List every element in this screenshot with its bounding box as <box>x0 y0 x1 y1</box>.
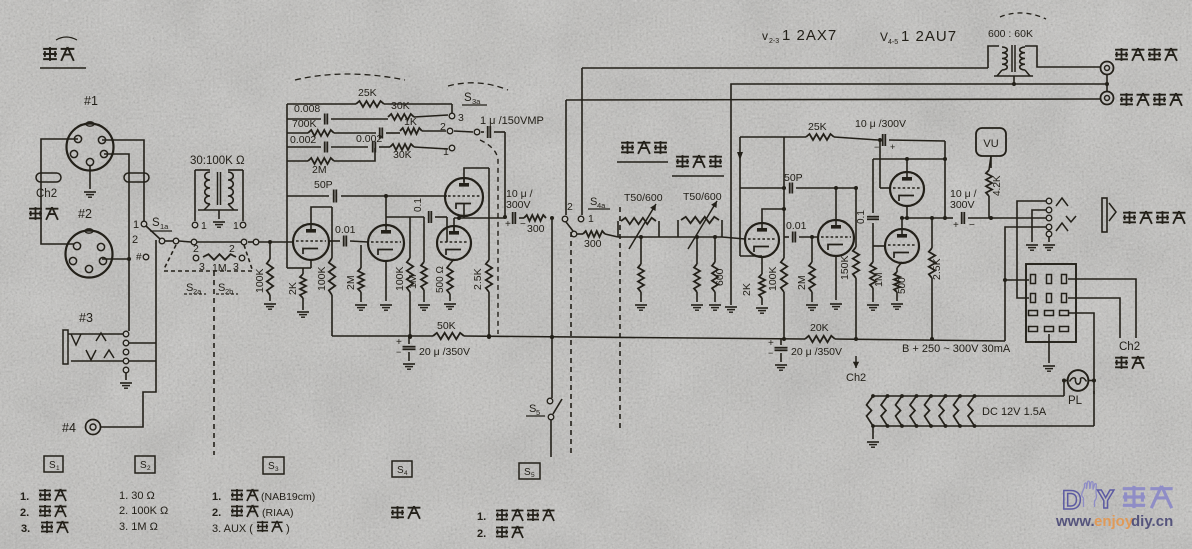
legend S4 从略 <box>391 506 420 519</box>
junction to S5 <box>550 216 554 220</box>
wire fb rail left <box>737 137 762 256</box>
triode V5 <box>885 229 919 263</box>
svg-text:20 μ /350V: 20 μ /350V <box>419 346 470 358</box>
svg-text:10 μ /300V: 10 μ /300V <box>855 118 906 130</box>
svg-text:#1: #1 <box>84 94 98 108</box>
wire vertical bus to #4 <box>101 240 156 427</box>
wire socket pin ground <box>1043 334 1055 371</box>
label 0.01 <box>335 224 356 236</box>
capacitor 20μ/350V (2) <box>768 338 788 370</box>
svg-text:+: + <box>953 220 959 231</box>
svg-text:1.: 1. <box>20 491 29 503</box>
triode V4 <box>890 172 924 206</box>
wire recording output line <box>566 99 1100 100</box>
resistor 100K (V2 load) <box>781 237 787 341</box>
label 4.2K <box>992 175 1003 196</box>
label 50P (fb) <box>784 172 803 184</box>
svg-text:(NAB19cm): (NAB19cm) <box>261 491 315 503</box>
wire 0.1 to follower grid <box>446 217 448 242</box>
transformer T1 right lead <box>228 170 243 221</box>
label 10μ/300V (stage out) <box>506 188 533 211</box>
wire V1b anode to 50P node <box>384 194 388 227</box>
wire from recording line to S4a c2 <box>565 100 567 215</box>
label 150K <box>839 255 851 280</box>
ground pot2 left <box>691 305 703 310</box>
label 600:60K <box>988 28 1033 40</box>
capacitor 10μ/300V (fb) <box>874 134 895 152</box>
triode U3b (lower) <box>437 226 471 260</box>
ground heater <box>867 426 879 447</box>
contact # mark <box>136 252 149 263</box>
legend S2 item3 <box>119 521 158 533</box>
watermark enjoy <box>1094 513 1134 530</box>
connector #2 label <box>78 207 92 221</box>
label 输入 (input) title <box>40 37 86 68</box>
switch S4 legend box <box>392 461 412 477</box>
svg-text:0.1: 0.1 <box>856 210 867 224</box>
switch S1a blades <box>146 226 191 242</box>
capacitor (row3) <box>380 128 400 139</box>
transformer T1 left winding <box>205 172 210 204</box>
wire PL right <box>1088 379 1096 383</box>
resistor 50K <box>433 320 464 339</box>
svg-text:4.2K: 4.2K <box>992 175 1003 196</box>
svg-text:3: 3 <box>275 466 279 473</box>
capacitor 20μ/350V (1) <box>396 336 416 369</box>
label 3 (S2 right) <box>233 261 239 273</box>
label 输出 (out) <box>1115 356 1144 369</box>
wire S1a to 1M section <box>197 241 241 243</box>
jack #3 plug symbol upper <box>63 330 123 364</box>
wire U3a anode to B+ <box>464 168 489 182</box>
wire #2 right pin to vertical bus <box>102 257 131 261</box>
resistor 500 (V5 cathode) <box>894 262 902 301</box>
svg-text:#3: #3 <box>79 311 93 325</box>
svg-text:300: 300 <box>584 238 602 250</box>
wire socket pin3 to heater <box>1068 313 1094 394</box>
label 2 (S1a pos 2) <box>132 234 138 246</box>
svg-text:300V: 300V <box>506 199 531 211</box>
svg-text:1. 30 Ω: 1. 30 Ω <box>119 490 155 502</box>
ground 1M V5 <box>867 305 879 310</box>
svg-text:700K: 700K <box>292 118 317 130</box>
transformer T2 center tap <box>1012 76 1016 86</box>
transformer T1 terminal left <box>192 220 207 232</box>
switch S4a contact 1 <box>578 213 594 225</box>
label 副音量 (sub volume) <box>672 155 724 176</box>
label 50P <box>314 179 333 191</box>
switch S3a contact 1 <box>443 145 455 158</box>
svg-text:600: 600 <box>714 268 726 286</box>
label 10μ/300V (out) <box>950 188 977 211</box>
jack #3 plug symbol lower <box>71 350 123 361</box>
watermark hand glyph <box>1082 481 1097 507</box>
label 0.1 <box>413 198 424 212</box>
label 700K <box>292 118 317 130</box>
transformer T2 right lead <box>1025 46 1100 67</box>
switch S3a contact 2 <box>440 121 453 134</box>
svg-text:(RIAA): (RIAA) <box>262 507 294 519</box>
dashed arc over S3a <box>448 83 508 90</box>
power socket block <box>1026 264 1076 342</box>
label 0.002 (left) <box>290 134 316 146</box>
wire 0.1 to V5 grid <box>873 223 885 246</box>
label 1M (V5) <box>873 272 885 287</box>
label PL <box>1068 395 1083 407</box>
legend S1 item3 <box>21 521 69 535</box>
wire S5 riser <box>550 218 554 398</box>
resistor 4.2K <box>986 156 992 218</box>
resistor 2.5K (follower) <box>486 260 492 339</box>
wire VU to 4.2K <box>990 156 992 168</box>
aux jack arrows <box>1056 198 1076 231</box>
switch S4a pivot and blade <box>566 222 577 237</box>
resistor 300 (build-out) <box>519 215 546 235</box>
DIN connector #1 <box>67 122 114 171</box>
svg-text:+: + <box>505 219 511 230</box>
svg-text:PL: PL <box>1068 395 1083 407</box>
transformer T2 left winding <box>1002 47 1007 70</box>
svg-text:#: # <box>136 252 142 263</box>
wire socket to Ch2 out (1) <box>1068 279 1136 338</box>
svg-text:−: − <box>768 348 773 358</box>
svg-text:2M: 2M <box>312 164 327 176</box>
ground 100K input <box>264 304 276 309</box>
watermark diy.cn <box>1131 513 1173 530</box>
capacitor 0.002 mid <box>373 142 390 153</box>
svg-text:#4: #4 <box>62 421 76 435</box>
B+ bus left <box>332 334 554 339</box>
triode U3a (upper) <box>445 178 483 216</box>
label S2b <box>216 282 238 296</box>
connector #4 label <box>62 421 76 435</box>
ground 500Ω <box>444 304 456 309</box>
resistor 2M (V1b grid) <box>358 245 364 302</box>
ground 2M V3 <box>806 305 818 310</box>
svg-text:1: 1 <box>443 146 449 158</box>
label 100K (V1b) <box>394 266 406 291</box>
capacitor 0.008 <box>287 114 388 125</box>
ground 2M V1b <box>355 305 367 310</box>
svg-text:1: 1 <box>56 465 60 472</box>
capacitor 0.01 (V2-V3) <box>784 232 818 243</box>
legend S5 item2 <box>477 526 524 540</box>
transformer T1 right winding <box>228 172 233 204</box>
svg-text:#2: #2 <box>78 207 92 221</box>
svg-text:S: S <box>49 460 56 471</box>
label B+ 250~300V 30mA <box>902 343 1011 355</box>
switch S5 legend box <box>519 463 540 479</box>
wire below S5 <box>550 420 552 457</box>
transformer T1 bottom <box>198 204 238 210</box>
resistor 2M (V3 grid) <box>809 237 815 302</box>
label S1a <box>150 217 172 231</box>
svg-text:3: 3 <box>458 112 464 124</box>
label 2K <box>287 282 299 295</box>
label V 12AX7 <box>762 27 837 45</box>
wire aux contact4 to B+ bus <box>1005 227 1046 341</box>
label 1M <box>212 262 227 274</box>
svg-text:30:100K Ω: 30:100K Ω <box>190 155 245 167</box>
label 1M (follower) <box>407 274 419 289</box>
svg-text:Ch2: Ch2 <box>1119 341 1140 353</box>
svg-text:1.: 1. <box>212 491 221 503</box>
wire EQ bus to V1a cathode <box>287 267 303 269</box>
label 3 (S2) <box>199 261 205 273</box>
svg-text:2.5K: 2.5K <box>931 258 943 280</box>
svg-text:2: 2 <box>147 465 151 472</box>
resistor 25K <box>287 101 452 113</box>
svg-text:1: 1 <box>133 219 139 231</box>
switch S2 contacts <box>193 255 245 261</box>
svg-text:2b: 2b <box>225 287 233 296</box>
label 输入 (input ch2) <box>29 207 58 220</box>
wire pot2 to V2 grid <box>639 235 745 239</box>
ground monitor line <box>725 307 737 312</box>
EQ left bus wire <box>286 104 288 268</box>
svg-text:T50/600: T50/600 <box>624 192 663 204</box>
label 10μ/300V (fb) <box>855 118 906 130</box>
resistor 600 below pot2 <box>712 237 718 302</box>
label T50/600 (pot2) <box>683 191 722 203</box>
heater filaments DC 12V <box>867 394 977 428</box>
svg-text:0.1: 0.1 <box>413 198 424 212</box>
wire 1μ output down <box>503 132 507 219</box>
label 1K <box>404 116 417 128</box>
aux jack contacts <box>1046 198 1052 237</box>
capacitor 1μ/150VMP <box>481 126 505 138</box>
label 2.5K (V5) <box>931 258 943 280</box>
DIN connector #2 <box>66 229 113 278</box>
ground 2K <box>297 312 309 317</box>
triode V3 <box>818 220 854 256</box>
wire V4 grid from fb node <box>878 138 890 188</box>
svg-text:50P: 50P <box>784 172 803 184</box>
wire V3 cathode <box>830 256 842 309</box>
resistor 20K <box>805 322 835 342</box>
svg-text:3. 1M Ω: 3. 1M Ω <box>119 521 158 533</box>
resistor below pot2 (left) <box>694 237 700 302</box>
ground below connector #1 <box>84 165 96 197</box>
label S3a <box>462 92 487 106</box>
switch S2 legend box <box>135 456 155 473</box>
wire 0.1 link <box>872 159 874 213</box>
svg-text:−: − <box>520 219 526 230</box>
wire from #1 left pin to #2 via cable <box>41 139 78 244</box>
svg-text:S: S <box>464 92 472 104</box>
transformer T1 center tap ground <box>213 210 225 227</box>
dashed linkage S2 box <box>164 245 254 271</box>
resistor 30K (row2) <box>388 114 448 120</box>
pot1 wiper arrow <box>629 204 656 249</box>
wire pot1 to pot2 <box>659 236 678 238</box>
svg-text:www.: www. <box>1055 513 1095 530</box>
svg-text:150K: 150K <box>839 255 851 280</box>
resistor 100K (V1b load) <box>407 217 413 339</box>
label 录音输出 <box>1120 93 1182 106</box>
label 监听输入 <box>1115 48 1177 61</box>
wire jack link <box>1105 75 1109 91</box>
switch S3a contact 3 <box>449 112 464 124</box>
resistor 300 (S4a) <box>577 231 605 250</box>
wire V5 anode to output line <box>900 216 904 230</box>
svg-text:T50/600: T50/600 <box>683 191 722 203</box>
label 辅助输出 <box>1123 211 1185 224</box>
svg-text:S: S <box>140 460 147 471</box>
capacitor 10μ/300V (stage out) <box>505 212 526 230</box>
svg-text:2.: 2. <box>212 507 221 519</box>
resistor 2K (V2 cathode) <box>759 256 765 305</box>
pot T50/600 #1 <box>618 218 659 237</box>
wire monitor line <box>731 84 1106 305</box>
svg-text:0.002: 0.002 <box>356 133 382 145</box>
capacitor 0.002 left <box>287 142 368 153</box>
svg-text:2: 2 <box>193 243 199 255</box>
switch S1 legend box <box>44 456 63 472</box>
svg-text:1 μ /150VMP: 1 μ /150VMP <box>480 115 544 127</box>
VU meter box <box>976 128 1006 156</box>
switch S3 legend box <box>263 457 284 474</box>
legend S1 item2 <box>20 505 67 519</box>
svg-text:S: S <box>524 467 531 478</box>
connector #1 label <box>84 94 98 108</box>
svg-text:3. AUX (: 3. AUX ( <box>212 523 253 535</box>
switch S1a row contacts <box>159 238 259 245</box>
ground below jack #3 <box>120 373 132 388</box>
ground 500 V5 <box>891 304 903 309</box>
legend S3 item3 <box>212 521 290 535</box>
svg-text:500 Ω: 500 Ω <box>435 266 446 293</box>
label DC 12V 1.5A <box>982 406 1047 418</box>
label 20μ/350V (1) <box>419 346 470 358</box>
label 100K (V1a) <box>316 266 328 291</box>
connector #4 <box>86 420 101 435</box>
ground 1M follower <box>418 305 430 310</box>
label 100K (input) <box>254 268 266 293</box>
wire anode riser x784 <box>783 137 785 237</box>
legend S5 item1 <box>477 509 555 523</box>
watermark www. <box>1055 513 1095 530</box>
svg-text:Ch2: Ch2 <box>36 188 57 200</box>
triode V1a <box>293 224 329 260</box>
wire socket to Ch2 out (2) <box>1068 298 1120 338</box>
switch S1a contact 1 <box>141 221 147 227</box>
svg-text:2K: 2K <box>287 282 299 295</box>
capacitor 50P (fb) <box>740 183 858 194</box>
svg-text:3.: 3. <box>21 523 30 535</box>
jack 监听输入 (monitor in) <box>1101 62 1114 75</box>
wire V2 anode <box>762 207 786 223</box>
wire line to output transformer (top) <box>582 67 988 69</box>
label 25K <box>358 87 377 99</box>
aux plug symbol <box>1102 198 1116 232</box>
label 2 (S2 pos right) <box>229 243 235 255</box>
svg-text:1: 1 <box>233 220 239 232</box>
resistor 25K (fb) <box>740 134 878 140</box>
ground 2K V2 <box>756 308 768 313</box>
svg-text:100K: 100K <box>394 266 406 291</box>
svg-text:100K: 100K <box>767 266 779 291</box>
triode V1b <box>368 225 404 261</box>
svg-text:20 μ /350V: 20 μ /350V <box>791 346 842 358</box>
svg-text:100K: 100K <box>254 268 266 293</box>
dashed arc over EQ <box>295 74 405 80</box>
resistor 1K <box>400 128 446 134</box>
transformer T1 core <box>218 172 221 205</box>
label S4a <box>588 196 610 210</box>
label 0.002 (mid) <box>356 133 382 145</box>
capacitor 0.1 (to EQ follower) <box>429 211 447 223</box>
svg-text:1 2AX7: 1 2AX7 <box>782 27 837 44</box>
pot2 wiper arrow <box>688 201 717 249</box>
label Ch2 (out) <box>1119 341 1140 353</box>
svg-text:Ch2: Ch2 <box>846 372 866 384</box>
svg-text:−: − <box>874 142 879 152</box>
ground 600 <box>709 305 721 310</box>
wire from #1 lower-right pin down to jack #3 <box>104 154 129 331</box>
svg-text:2: 2 <box>440 121 446 133</box>
svg-text:Y: Y <box>1097 484 1114 514</box>
cable marker oval Ch1 <box>36 173 61 182</box>
capacitor 0.01 (V1 coupling) <box>329 236 368 247</box>
resistor 2M (EQ) <box>287 148 375 164</box>
svg-text:4-5: 4-5 <box>888 39 898 46</box>
svg-text:+: + <box>890 142 895 152</box>
capacitor 0.1 (V4-V5) <box>856 210 879 224</box>
resistor 1M (S2) <box>203 254 236 260</box>
svg-text:50K: 50K <box>437 320 456 332</box>
label 2M <box>312 164 327 176</box>
svg-text:v: v <box>762 29 768 43</box>
wire V4 anode <box>873 157 947 172</box>
transformer T1 terminal right <box>233 220 246 232</box>
transformer T2 bottom skirt <box>994 70 1033 76</box>
svg-text:500: 500 <box>897 277 908 294</box>
wire aux contact2 ground <box>1026 210 1046 250</box>
label 30K (row4) <box>393 149 412 161</box>
svg-text:2: 2 <box>132 234 138 246</box>
svg-text:1: 1 <box>201 220 207 232</box>
svg-text:): ) <box>286 523 290 535</box>
watermark 乐园 <box>1123 486 1173 508</box>
label 30K (row2) <box>391 100 410 112</box>
svg-text:S: S <box>268 461 275 472</box>
svg-text:5: 5 <box>531 472 535 479</box>
svg-text:2M: 2M <box>345 275 357 290</box>
label T50/600 (pot1) <box>624 192 663 204</box>
power socket pins <box>1029 275 1069 332</box>
svg-text:2M: 2M <box>796 275 808 290</box>
svg-text:2.5K: 2.5K <box>472 268 484 290</box>
svg-text:20K: 20K <box>810 322 829 334</box>
label 500 (V5) <box>897 277 908 294</box>
capacitor 50P <box>287 190 447 203</box>
resistor 100K (V1a load) <box>329 207 335 336</box>
dashed arc over T2 <box>1000 13 1046 19</box>
svg-text:B + 250 ~ 300V 30mA: B + 250 ~ 300V 30mA <box>902 343 1011 355</box>
legend S2 item1 <box>119 490 155 502</box>
pot T50/600 #2 <box>678 217 722 237</box>
resistor 1M (follower grid) <box>421 217 427 302</box>
wire S4a to volume pot <box>605 234 618 237</box>
switch S4a contact 2 <box>562 201 573 222</box>
wire follower output junction <box>454 204 505 233</box>
svg-text:V: V <box>880 30 888 44</box>
junction 50P node <box>782 186 786 190</box>
wire fb cap to V4 node <box>889 140 945 218</box>
transformer T2 left lead <box>988 46 999 68</box>
legend S3 item2 <box>212 505 294 519</box>
